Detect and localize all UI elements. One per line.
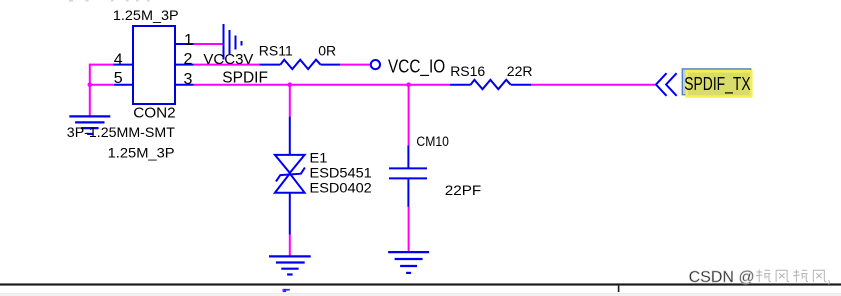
svg-text:RS11: RS11 <box>259 42 293 58</box>
svg-text:VCC_IO: VCC_IO <box>388 56 445 77</box>
svg-text:1.25M_3P: 1.25M_3P <box>108 146 175 162</box>
svg-text:CSDN @: CSDN @ <box>689 269 755 286</box>
svg-text:E1: E1 <box>310 151 328 167</box>
svg-text:1: 1 <box>184 32 193 49</box>
svg-text:3P-1.25MM-SMT: 3P-1.25MM-SMT <box>67 124 175 140</box>
svg-text:CM10: CM10 <box>416 133 448 149</box>
svg-text:0R: 0R <box>318 42 336 58</box>
svg-text:SPDIF: SPDIF <box>222 70 268 87</box>
svg-text:22PF: 22PF <box>445 184 481 199</box>
svg-text:ESD0402: ESD0402 <box>310 181 372 197</box>
svg-text:SPDIF_TX: SPDIF_TX <box>684 74 750 94</box>
svg-text:VCC3V: VCC3V <box>203 51 253 68</box>
svg-text:22R: 22R <box>507 63 533 79</box>
svg-text:2: 2 <box>183 51 192 68</box>
svg-text:1.25M_3P: 1.25M_3P <box>113 8 179 24</box>
svg-text:RS16: RS16 <box>450 63 485 79</box>
svg-text:3: 3 <box>183 71 192 88</box>
svg-text:4: 4 <box>114 51 123 68</box>
svg-text:5: 5 <box>114 70 123 87</box>
svg-text:CON2: CON2 <box>133 105 175 122</box>
svg-text:ESD5451: ESD5451 <box>310 166 372 182</box>
